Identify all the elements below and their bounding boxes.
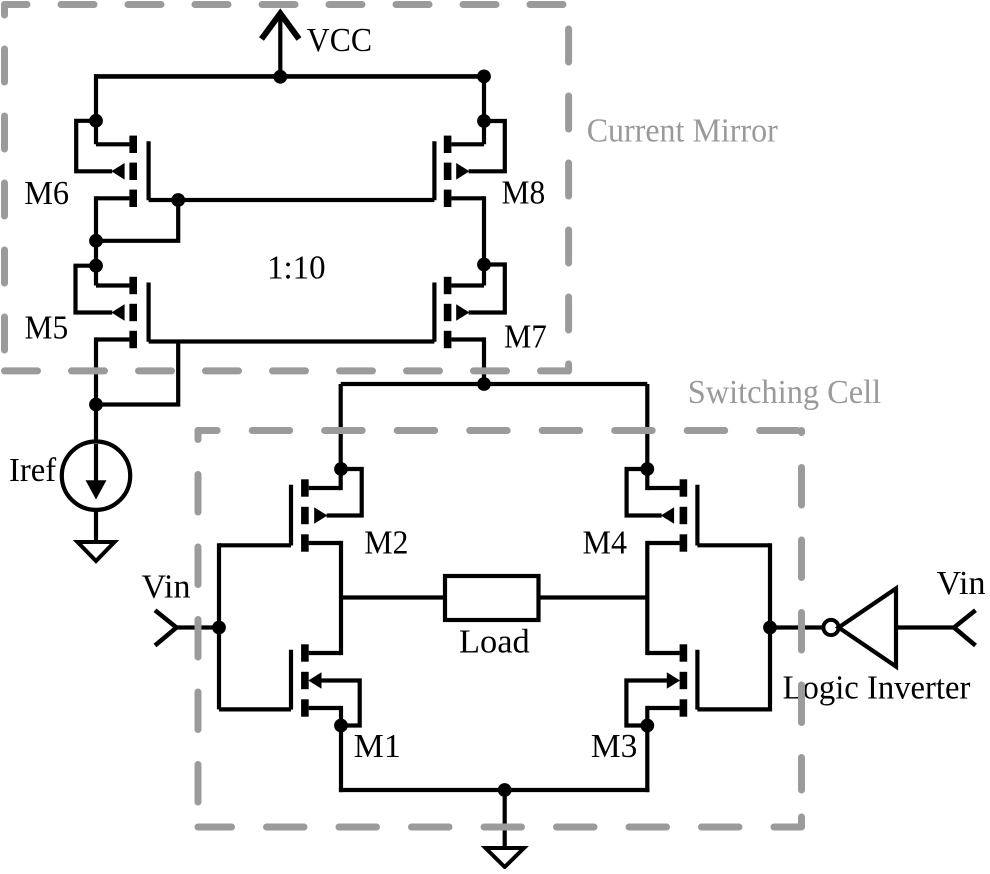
node ground junction [498, 783, 512, 797]
label M1 [354, 728, 401, 765]
resistor Load box [445, 576, 539, 620]
wire M3 to ground rail [645, 706, 649, 792]
ground symbol (cell) [486, 848, 525, 867]
transistor M2 channel bars [301, 479, 309, 551]
input terminal Vin-right chevron [954, 610, 976, 645]
label M6 [24, 175, 69, 212]
svg-text:Vin: Vin [937, 565, 986, 602]
dashed box Current Mirror (bottom edge) [5, 367, 569, 374]
wire M3 gate [697, 707, 770, 711]
wire gate net drop to Iref node [96, 342, 178, 405]
label VCC [307, 22, 372, 59]
wire M2 source [309, 541, 341, 545]
transistor M4 body bracket [627, 469, 662, 516]
transistor M5 gate line [147, 283, 151, 342]
wire left column (VCC to M6) [94, 74, 98, 144]
node gate net junction [171, 193, 185, 207]
svg-text:Logic Inverter: Logic Inverter [783, 670, 971, 707]
wire gate net M6 to M8 [149, 198, 435, 202]
label Vin left [142, 569, 191, 606]
wire M5 source [96, 337, 129, 341]
wire M2 gate [219, 543, 291, 547]
label Switching Cell [688, 374, 881, 411]
svg-text:M8: M8 [502, 175, 546, 212]
node M1 source junction [334, 719, 348, 733]
svg-text:M2: M2 [364, 525, 408, 562]
transistor M7 channel bars [444, 277, 452, 348]
wire M1 drain [309, 651, 341, 655]
wire left column (M6 to M5) [94, 196, 98, 285]
transistor M3 bulk arrow [667, 672, 680, 689]
svg-text:Current Mirror: Current Mirror [587, 113, 779, 150]
transistor M6 gate line [147, 141, 151, 200]
svg-text:M1: M1 [354, 728, 401, 765]
transistor M5 channel bars [129, 277, 137, 348]
transistor M1 bulk arrow [308, 672, 321, 689]
wire M3 source [647, 706, 679, 710]
transistor M8 body bracket [469, 121, 505, 171]
wire M6 drain [96, 142, 129, 146]
wire ground rail [339, 788, 650, 792]
wire Iref to ground [94, 510, 98, 542]
wire M1 to ground rail [339, 706, 343, 792]
power VCC symbol [262, 14, 300, 79]
label Current Mirror [587, 113, 779, 150]
wire right column (VCC to M8) [482, 74, 486, 144]
transistor M2 body bracket [327, 469, 362, 516]
node Vin-left junction [212, 621, 226, 635]
transistor M7 body bracket [469, 265, 505, 313]
svg-text:VCC: VCC [307, 22, 372, 59]
transistor M3 gate line [695, 650, 699, 710]
wire M4 to M3 column [645, 541, 649, 655]
svg-text:Iref: Iref [9, 452, 57, 489]
node VCC rail junction [273, 70, 287, 84]
wire node drop right (to M4) [645, 384, 649, 490]
label M8 [502, 175, 546, 212]
node Iref junction [89, 398, 103, 412]
current source Iref arrow [86, 444, 107, 500]
transistor M8 channel bars [444, 136, 452, 207]
svg-text:M6: M6 [24, 175, 69, 212]
wire M2 drain [309, 486, 341, 490]
node rail right corner junction [477, 70, 491, 84]
wire M5 drain [96, 283, 129, 287]
transistor M2 gate line [289, 485, 293, 546]
node M8 drain junction [477, 114, 491, 128]
label M7 [504, 318, 547, 355]
label M3 [591, 728, 638, 765]
wire M7 source [451, 337, 484, 341]
wire M1 gate [219, 707, 291, 711]
transistor M6 bulk arrow [111, 163, 124, 180]
svg-text:M5: M5 [25, 310, 69, 347]
wire M2 to M1 column [339, 541, 343, 655]
label Vin right [937, 565, 986, 602]
node inverter output junction [763, 621, 777, 635]
svg-text:M4: M4 [583, 525, 628, 562]
svg-text:Switching Cell: Switching Cell [688, 374, 881, 411]
transistor M1 gate line [289, 650, 293, 710]
wire M8 source [451, 196, 484, 200]
node M4 drain junction [640, 462, 654, 476]
wire left column (M5 to Iref) [94, 337, 98, 443]
wire M4 gate [697, 543, 770, 547]
label Logic Inverter [783, 670, 971, 707]
input terminal Vin-left chevron [155, 610, 177, 645]
label ratio 1:10 [267, 249, 326, 286]
dashed box Current Mirror (top edge) [5, 1, 569, 8]
transistor M4 gate line [695, 485, 699, 546]
wire Vin-left bracket [217, 543, 221, 709]
transistor M4 bulk arrow [661, 507, 674, 524]
transistor M5 bulk arrow [111, 304, 124, 321]
wire M8 drain [451, 142, 484, 146]
wire inverter output bracket [768, 543, 772, 711]
svg-text:1:10: 1:10 [267, 249, 326, 286]
transistor M6 channel bars [129, 136, 137, 207]
dashed box Current Mirror (left edge) [1, 5, 8, 371]
wire right column (M7 to node) [482, 337, 486, 386]
dashed box Switching Cell (left edge) [195, 431, 202, 828]
label Iref [9, 452, 57, 489]
svg-text:Vin: Vin [142, 569, 191, 606]
label M5 [25, 310, 69, 347]
label Load [459, 624, 530, 661]
node M5 bracket junction [89, 259, 103, 273]
transistor M3 channel bars [680, 644, 688, 716]
wire right column (M8 to M7) [482, 196, 486, 285]
transistor M1 channel bars [301, 644, 309, 716]
transistor M3 body bracket [626, 681, 667, 726]
transistor M6 body bracket [76, 121, 112, 172]
wire VCC rail [94, 74, 486, 79]
svg-text:M7: M7 [504, 318, 547, 355]
svg-text:M3: M3 [591, 728, 638, 765]
node switching junction [477, 377, 491, 391]
logic inverter triangle U1 [839, 589, 896, 667]
wire node drop left (to M2) [339, 384, 343, 490]
wire M1 source [309, 706, 341, 710]
label M4 [583, 525, 628, 562]
transistor M8 bulk arrow [456, 163, 469, 180]
node mirror node junction [89, 234, 103, 248]
wire switching node rail [341, 382, 648, 386]
dashed box Switching Cell (right edge) [798, 431, 805, 791]
transistor M7 bulk arrow [456, 304, 469, 321]
transistor M5 body bracket [76, 266, 113, 313]
wire load right [539, 595, 648, 599]
dashed box Switching Cell (bottom edge) [198, 817, 802, 827]
node M2 drain junction [334, 462, 348, 476]
wire load left [341, 595, 445, 599]
wire inverter input lead [896, 625, 954, 629]
transistor M7 gate line [432, 283, 436, 342]
ground symbol (Iref) [78, 542, 115, 561]
wire gate net drop to mirror node [96, 200, 178, 241]
wire gate net M5 to M7 [149, 339, 435, 343]
wire ground stem [503, 790, 507, 848]
wire M3 drain [647, 651, 679, 655]
wire M4 drain [647, 486, 679, 490]
dashed box Switching Cell (top edge) [198, 427, 802, 434]
node M6 drain junction [89, 114, 103, 128]
wire M7 drain [451, 283, 484, 287]
dashed box Current Mirror (right edge) [565, 5, 572, 371]
svg-text:Load: Load [459, 624, 530, 661]
transistor M4 channel bars [680, 479, 688, 551]
transistor M1 body bracket [321, 681, 360, 726]
wire M4 source [647, 541, 679, 545]
wire M6 source [96, 196, 129, 200]
label M2 [364, 525, 408, 562]
wire inverter output lead [770, 625, 823, 629]
transistor M2 bulk arrow [314, 507, 327, 524]
current source Iref circle [62, 442, 130, 510]
node M3 source junction [640, 719, 654, 733]
node M7 bracket junction [477, 258, 491, 272]
logic inverter bubble [823, 620, 838, 635]
wire Vin-left lead [177, 625, 220, 629]
transistor M8 gate line [432, 141, 436, 200]
